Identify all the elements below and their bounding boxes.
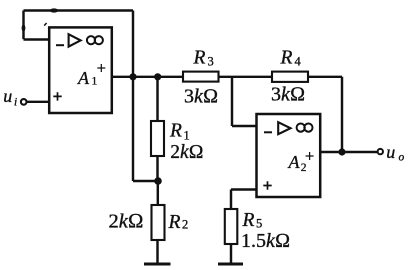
wire A2 output — [320, 151, 377, 153]
resistor R4 — [272, 72, 308, 82]
svg-text:A: A — [77, 68, 90, 88]
op-amp A2 plus input sign — [263, 181, 271, 189]
svg-text:u: u — [3, 86, 12, 106]
op-amp A1 minus input sign — [56, 44, 64, 46]
svg-text:R: R — [242, 210, 255, 231]
op-amp U2 A2 box — [257, 114, 321, 197]
input terminal ui circle — [21, 99, 27, 105]
wire down from output node to R1/R2 node — [133, 77, 158, 181]
wire R1 top lead — [156, 77, 158, 121]
svg-text:o: o — [399, 152, 405, 164]
smudge dot on top feedback wire — [50, 8, 58, 12]
svg-text:R: R — [280, 47, 293, 68]
svg-text:3: 3 — [208, 55, 214, 69]
svg-text:R: R — [169, 121, 182, 142]
op-amp U1 A1 box — [49, 27, 112, 113]
node junction dot R1/R2 — [154, 177, 162, 185]
op-amp A2 minus input sign — [264, 131, 272, 133]
ground under R2 — [144, 263, 171, 266]
op-amp A1 output superscript plus — [97, 64, 105, 72]
wire R3 to R4 — [219, 76, 273, 78]
node junction dot feedback/output — [129, 73, 136, 80]
stray tick mark — [44, 23, 46, 26]
wire R1 bottom lead — [156, 156, 158, 181]
wire ui to A1 plus input — [27, 101, 49, 103]
svg-text:R: R — [193, 48, 206, 69]
smudge dot on left feedback wire — [22, 24, 26, 31]
svg-text:A: A — [288, 152, 301, 172]
svg-text:1: 1 — [184, 129, 190, 143]
node junction dot R1 top — [154, 73, 161, 80]
op-amp A1 infinity symbol — [87, 36, 103, 44]
wire R5 bottom lead — [230, 244, 232, 263]
op-amp A1 triangle symbol — [69, 34, 81, 46]
resistor R3 — [183, 72, 219, 82]
svg-text:2kΩ: 2kΩ — [170, 142, 203, 163]
svg-text:u: u — [386, 142, 395, 162]
svg-text:1: 1 — [92, 75, 98, 87]
op-amp A2 infinity symbol — [297, 124, 313, 132]
wire branch down to A2 minus input — [232, 77, 257, 126]
svg-text:3kΩ: 3kΩ — [271, 83, 305, 105]
svg-text:i: i — [14, 97, 17, 109]
svg-text:1.5kΩ: 1.5kΩ — [241, 230, 290, 252]
op-amp A2 triangle symbol — [278, 122, 290, 134]
wire feedback left vertical — [22, 11, 24, 40]
svg-text:5: 5 — [256, 217, 262, 231]
wire R2 bottom lead — [156, 240, 158, 263]
resistor R5 — [225, 209, 238, 244]
wire feedback top horizontal — [24, 9, 134, 11]
wire A1 output — [112, 76, 184, 78]
wire feedback into A1 minus input — [24, 38, 50, 40]
wire R4 to output column — [308, 77, 342, 152]
wire R2 top lead — [157, 181, 159, 205]
svg-text:3kΩ: 3kΩ — [184, 86, 218, 108]
node junction dot A2 output — [338, 148, 345, 155]
svg-text:2: 2 — [182, 218, 188, 232]
svg-text:2: 2 — [301, 162, 307, 174]
wire A2 plus input to R5 — [231, 190, 257, 210]
op-amp A1 plus input sign — [53, 92, 61, 100]
resistor R2 — [152, 205, 165, 240]
wire feedback up from output node — [132, 11, 134, 77]
op-amp A2 output superscript plus — [306, 152, 314, 160]
resistor R1 — [151, 121, 164, 156]
svg-text:4: 4 — [295, 55, 302, 69]
svg-text:2kΩ: 2kΩ — [109, 210, 144, 232]
ground under R5 — [218, 263, 243, 266]
svg-text:R: R — [168, 212, 181, 233]
output terminal uo circle — [378, 149, 383, 154]
